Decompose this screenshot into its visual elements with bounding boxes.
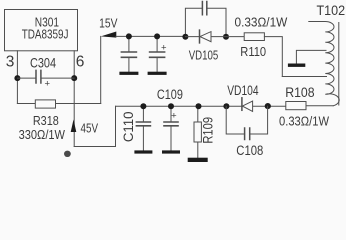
svg-text:0.33Ω/1W: 0.33Ω/1W [235,14,288,29]
node pin6 junction [71,75,77,81]
ground bar [119,72,138,75]
wire diode row [185,36,226,38]
wire R109 top lead [197,106,199,122]
node 15V arrow [101,32,117,38]
svg-text:+: + [161,43,167,54]
wire 15V rail [116,35,185,37]
transformer core bar [288,64,305,67]
svg-text:TDA8359J: TDA8359J [22,27,69,42]
transformer core line [338,23,340,106]
wire C304 row [17,77,74,79]
transformer T102 winding [309,22,339,106]
wire tap1 [296,50,326,63]
svg-text:C109: C109 [157,87,183,102]
node rail2 dot R109 [196,103,202,109]
node pin3 junction [14,75,20,81]
wire rail2 [116,105,286,107]
capacitor (rail1 first) lead [128,36,130,51]
node VD104 left junction [223,103,229,109]
wire R110 to riser [264,37,282,77]
svg-text:R109: R109 [201,117,216,144]
svg-text:45V: 45V [81,120,99,135]
svg-text:6: 6 [76,53,85,70]
resistor R110 body [244,33,264,41]
resistor R318 body [35,100,55,108]
svg-text:C110: C110 [121,111,136,142]
node VD104 right junction [265,103,271,109]
svg-text:0.33Ω/1W: 0.33Ω/1W [279,114,330,129]
node rail2 dot C109 [168,103,174,109]
node rail2 dot C110 [140,103,146,109]
capacitor (rail1 electrolytic) lead [156,36,158,51]
svg-text:R110: R110 [240,44,266,59]
svg-text:3: 3 [6,53,15,70]
svg-text:15V: 15V [99,16,118,30]
wire R318 row [17,103,100,105]
wire 45V feed [74,106,115,146]
capacitor C108 plates [245,128,250,140]
wire pin 3 lead [16,51,18,104]
capacitor (rail1 electrolytic) plates [150,52,165,57]
svg-text:T102: T102 [317,3,346,18]
op-amp U1 IC N301 TDA8359J box [5,10,78,51]
node rail1 dot B [154,33,160,39]
ground bar [148,72,167,75]
node rail1 dot A [126,33,132,39]
wire [128,58,130,72]
diode VD105 [199,30,201,43]
wire pin 6 lead [73,51,75,147]
wire 15V riser [100,36,102,103]
resistor R108 body [286,102,306,110]
capacitor C109 plates [164,122,178,126]
svg-text:R108: R108 [285,85,314,100]
svg-text:R318: R318 [33,113,59,128]
svg-text:C108: C108 [236,143,263,158]
ground bar [134,150,152,153]
node VD105 right junction [223,34,229,40]
capacitor (rail1 first) plates [121,52,136,57]
wire [170,127,172,151]
diode VD104 [241,98,243,111]
wire tap2 to winding [282,76,326,78]
capacitor C110 lead [142,106,144,121]
wire R108 to winding [306,105,333,107]
capacitor C304 plates [36,70,41,83]
capacitor C110 plates [136,122,150,126]
svg-text:C304: C304 [30,54,56,70]
capacitor snubber plates [202,2,206,15]
wire to R110 [226,36,244,38]
wire [142,127,144,151]
svg-text:+: + [171,110,177,121]
wire [156,58,158,72]
ground bar [162,150,180,153]
capacitor C109 lead [170,106,172,121]
node 45V arrow [71,120,77,133]
wire VD105 snubber loop [185,8,226,36]
svg-text:+: + [45,78,51,89]
svg-text:330Ω/1W: 330Ω/1W [19,127,66,142]
wire C108 loop [226,106,267,134]
ground bar [188,158,208,162]
smudge artifact [64,151,71,157]
svg-text:VD104: VD104 [227,83,259,98]
resistor R109 body [194,122,201,142]
wire R109 bottom lead [197,142,199,158]
svg-text:VD105: VD105 [189,48,219,63]
node VD105 left junction [182,34,188,40]
